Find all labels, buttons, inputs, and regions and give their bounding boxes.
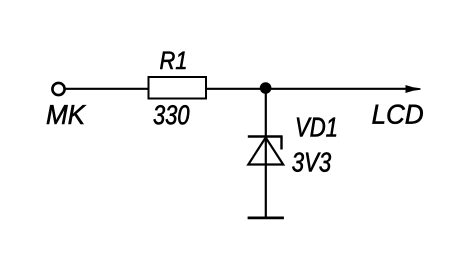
label MK (47, 105, 86, 124)
node junction (260, 82, 272, 94)
terminal MK (52, 83, 64, 95)
wire junction down to ground (265, 88, 267, 217)
zener wing (280, 137, 282, 150)
zener diode VD1 cathode bar (248, 135, 283, 137)
zener diode VD1 triangle (248, 138, 283, 165)
label 330 (154, 105, 190, 124)
arrow to LCD (406, 85, 421, 93)
label R1 (160, 52, 185, 69)
label LCD (372, 105, 422, 124)
label 3V3 (292, 152, 331, 171)
label VD1 (297, 118, 336, 137)
ground bar (248, 216, 284, 219)
resistor R1 (149, 77, 207, 99)
wire resistor to arrow (206, 88, 413, 90)
wire terminal to resistor (66, 88, 148, 90)
